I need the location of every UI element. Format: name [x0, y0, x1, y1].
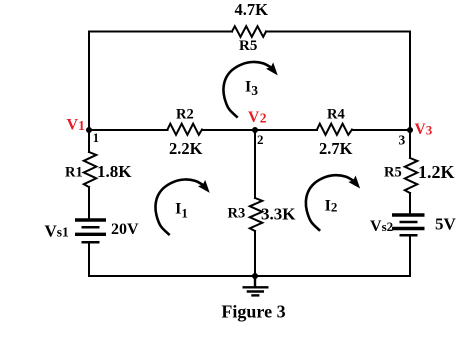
svg-text:2.7K: 2.7K — [319, 139, 353, 158]
svg-text:R3: R3 — [228, 206, 246, 222]
svg-text:3.3K: 3.3K — [261, 204, 296, 223]
svg-text:1.8K: 1.8K — [97, 162, 132, 181]
svg-text:R1: R1 — [65, 164, 83, 180]
svg-text:R2: R2 — [176, 106, 194, 122]
svg-text:1: 1 — [93, 131, 99, 145]
svg-text:V1: V1 — [67, 117, 86, 134]
svg-text:R5: R5 — [384, 165, 402, 181]
svg-text:I2: I2 — [325, 198, 338, 215]
svg-text:1.2K: 1.2K — [418, 162, 455, 182]
svg-text:2: 2 — [257, 132, 264, 147]
svg-text:R4: R4 — [327, 106, 345, 122]
svg-text:V3: V3 — [415, 121, 433, 138]
svg-text:3: 3 — [399, 132, 406, 147]
svg-text:Vs2: Vs2 — [370, 218, 393, 235]
svg-text:Vs1: Vs1 — [45, 222, 70, 241]
svg-text:2.2K: 2.2K — [169, 139, 203, 158]
svg-text:R5: R5 — [239, 38, 257, 54]
svg-text:Figure 3: Figure 3 — [221, 302, 285, 322]
svg-text:4.7K: 4.7K — [235, 0, 269, 19]
svg-text:20V: 20V — [111, 221, 139, 238]
svg-text:V2: V2 — [248, 109, 267, 126]
svg-text:5V: 5V — [435, 215, 457, 234]
